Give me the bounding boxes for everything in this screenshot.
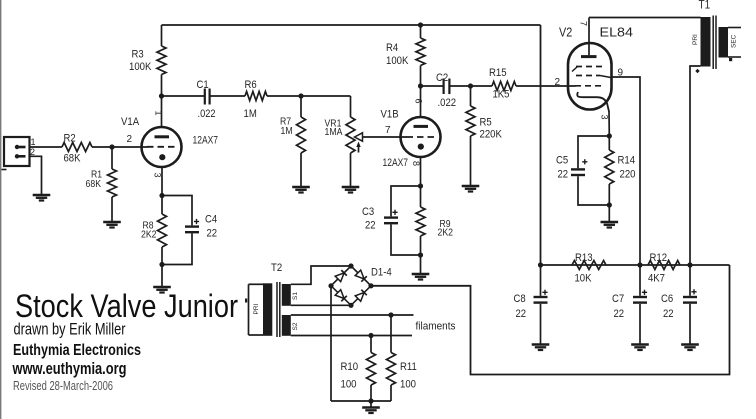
C6 value 22	[663, 308, 674, 320]
node filament bottom R10	[368, 333, 373, 338]
resistor R1	[108, 147, 117, 222]
T2 S2 label	[292, 322, 299, 330]
C8 label	[514, 293, 526, 305]
node top rail R4	[418, 22, 423, 27]
R2 label	[64, 133, 76, 145]
R7 value 1M	[281, 126, 293, 137]
resistor R11	[387, 315, 396, 401]
V1B pin 6 label	[414, 99, 424, 104]
C8 value 22	[516, 308, 527, 320]
resistor R5	[466, 86, 475, 186]
wire jack pin1 to R2	[30, 146, 63, 148]
capacitor C4	[162, 196, 199, 265]
svg-text:22: 22	[558, 169, 569, 181]
VR1 label	[325, 119, 342, 130]
svg-text:S1: S1	[292, 292, 299, 300]
R9 label	[440, 219, 451, 230]
wire filament top	[291, 314, 414, 316]
V2 pin 7 label	[579, 21, 589, 26]
svg-text:7: 7	[385, 125, 391, 136]
svg-text:7: 7	[579, 21, 589, 26]
V1A label	[121, 116, 140, 128]
T1 phase dot	[695, 69, 699, 73]
ground at VR1	[342, 187, 360, 193]
wire B+ filter rail	[541, 264, 730, 266]
input stub mark	[2, 169, 7, 171]
V1A pin 3 label	[153, 173, 163, 178]
svg-text:100K: 100K	[386, 55, 409, 67]
svg-text:drawn by Erik Miller: drawn by Erik Miller	[14, 321, 126, 339]
filaments label	[416, 321, 456, 333]
svg-text:C8: C8	[514, 293, 526, 305]
svg-text:Revised 28-March-2006: Revised 28-March-2006	[13, 378, 113, 393]
V1B label	[381, 109, 399, 121]
R6 label	[245, 79, 257, 91]
node R9 bottom	[418, 252, 423, 257]
R12 value 4K7	[648, 273, 665, 285]
node C6	[687, 262, 692, 267]
T2 label	[271, 262, 282, 274]
capacitor C2	[421, 79, 471, 95]
T1 label	[699, 0, 711, 12]
R4 label	[386, 42, 398, 54]
svg-text:1MA: 1MA	[325, 127, 343, 138]
ground at jack	[33, 195, 51, 201]
wire T2 S1 bottom to bridge	[291, 304, 351, 306]
node C8	[538, 262, 543, 267]
ground at R14	[601, 222, 619, 228]
svg-text:22: 22	[207, 228, 218, 240]
C3 label	[362, 206, 374, 218]
svg-text:R10: R10	[341, 361, 359, 373]
svg-text:22: 22	[516, 308, 527, 320]
image left border line	[0, 0, 2, 419]
R1 label	[91, 170, 102, 181]
resistor R14	[605, 136, 614, 205]
wire bridge DC minus	[330, 286, 332, 401]
svg-text:R14: R14	[618, 155, 636, 167]
node V1A plate junction	[159, 93, 164, 98]
wire R6 to node B	[267, 95, 301, 97]
T2 S1 label	[292, 292, 299, 300]
svg-text:3: 3	[153, 173, 163, 178]
svg-text:1K5: 1K5	[493, 89, 510, 101]
svg-text:12AX7: 12AX7	[193, 135, 219, 147]
node C2 R5 R15	[468, 83, 473, 88]
wire B+ drop	[540, 25, 542, 265]
node filament top R11	[388, 312, 393, 317]
resistor R4	[416, 25, 425, 86]
resistor R6	[245, 92, 267, 101]
svg-text:R5: R5	[480, 117, 492, 129]
svg-text:R6: R6	[245, 79, 257, 91]
ground at PSU	[362, 408, 380, 414]
svg-text:C3: C3	[362, 206, 374, 218]
V1B pin 7 label	[385, 125, 391, 136]
R5 label	[480, 117, 492, 129]
svg-text:R3: R3	[132, 49, 144, 61]
resistor R8	[158, 196, 167, 265]
jack pin 2 label	[30, 147, 35, 157]
ground at R5	[462, 186, 480, 192]
svg-text:PRI: PRI	[692, 34, 699, 45]
V2 type EL84	[600, 26, 634, 40]
R13 value 10K	[575, 273, 593, 285]
svg-text:100K: 100K	[129, 61, 152, 73]
capacitor C3	[384, 186, 421, 255]
svg-text:C7: C7	[612, 293, 624, 305]
resistor R10	[367, 336, 376, 402]
C4 label	[205, 214, 217, 226]
capacitor C1	[162, 89, 246, 105]
resistor R13	[572, 261, 606, 270]
wire node B to VR1	[301, 95, 351, 97]
V2 pin 3 label	[600, 115, 610, 120]
wire jack pin2 to ground	[30, 156, 42, 195]
svg-text:R4: R4	[386, 42, 398, 54]
R15 label	[489, 67, 507, 79]
capacitor C7	[633, 265, 647, 345]
jack pin 1 label	[31, 137, 36, 147]
resistor R3	[157, 25, 166, 96]
svg-text:.022: .022	[438, 97, 457, 109]
resistor R12	[648, 261, 680, 270]
svg-text:2: 2	[555, 77, 561, 88]
svg-text:T2: T2	[271, 262, 282, 274]
T1 PRI label	[692, 34, 699, 45]
T2 PRI label	[253, 303, 260, 314]
svg-text:R13: R13	[575, 252, 593, 264]
company text	[13, 342, 141, 359]
R11 label	[400, 361, 417, 373]
wire filament bottom	[291, 335, 412, 337]
svg-text:filaments: filaments	[416, 321, 456, 333]
triode V1B	[401, 86, 441, 186]
website text	[12, 360, 127, 378]
wire R8 to ground	[161, 265, 163, 288]
R6 value 1M	[244, 108, 257, 120]
svg-text:22: 22	[365, 220, 376, 232]
wire top rail	[162, 24, 541, 26]
svg-text:C5: C5	[556, 155, 568, 167]
wire R14 to ground	[608, 205, 610, 222]
node V1B plate junction	[418, 83, 423, 88]
R12 label	[650, 252, 668, 264]
svg-text:12AX7: 12AX7	[383, 157, 409, 169]
svg-text:R2: R2	[64, 133, 76, 145]
svg-text:www.euthymia.org: www.euthymia.org	[12, 360, 127, 378]
resistor R15	[471, 82, 576, 91]
wire V2 cathode down	[608, 111, 610, 136]
svg-text:S2: S2	[292, 322, 299, 330]
capacitor C6	[683, 265, 697, 345]
R1 value 68K	[86, 179, 102, 190]
svg-text:10K: 10K	[575, 273, 593, 285]
node V1B cathode	[418, 183, 423, 188]
wire V2 screen to node C7	[612, 77, 641, 265]
svg-text:SEC: SEC	[731, 34, 738, 48]
svg-text:6: 6	[414, 99, 424, 104]
svg-text:2: 2	[30, 147, 35, 157]
pentode V2	[568, 18, 612, 112]
svg-text:R11: R11	[400, 361, 417, 373]
wire T1 primary to B+	[690, 66, 701, 265]
C1 value .022	[198, 108, 216, 120]
node heater ground	[368, 398, 373, 403]
svg-text:2K2: 2K2	[141, 230, 157, 241]
svg-text:68K: 68K	[86, 179, 102, 190]
svg-text:PRI: PRI	[253, 303, 260, 314]
R4 value 100K	[386, 55, 409, 67]
svg-text:Euthymia Electronics: Euthymia Electronics	[13, 342, 141, 359]
svg-text:V1B: V1B	[381, 109, 399, 121]
svg-text:.022: .022	[198, 108, 216, 120]
R11 value 100	[400, 379, 416, 391]
wire R2 to node A	[92, 146, 112, 148]
bridge rectifier D1-4	[328, 263, 373, 308]
ground at R9	[412, 274, 430, 280]
triode V1A	[142, 96, 182, 196]
svg-text:8: 8	[411, 161, 421, 166]
V1A grid pin 2 label	[127, 134, 133, 145]
svg-text:T1: T1	[699, 0, 711, 12]
VR1 value 1MA	[325, 127, 343, 138]
resistor R9	[416, 186, 425, 255]
R14 label	[618, 155, 636, 167]
ground at R7	[292, 187, 310, 193]
C3 value 22	[365, 220, 376, 232]
wire heater ground bus	[331, 400, 391, 402]
transformer T2	[245, 282, 291, 337]
R13 label	[575, 252, 593, 264]
svg-text:3: 3	[600, 115, 610, 120]
svg-text:2K2: 2K2	[438, 228, 454, 239]
capacitor C5	[571, 136, 609, 205]
input jack J1	[4, 137, 30, 166]
node A junction	[109, 144, 114, 149]
node B junction	[298, 93, 303, 98]
svg-text:1M: 1M	[281, 126, 293, 137]
capacitor C8	[534, 265, 548, 345]
resistor R2	[62, 143, 92, 152]
svg-text:1: 1	[154, 111, 164, 116]
T1 SEC label	[731, 34, 738, 48]
V1B pin 8 label	[411, 161, 421, 166]
resistor R7	[297, 96, 306, 187]
svg-text:22: 22	[663, 308, 674, 320]
ground at C6	[681, 345, 699, 351]
C7 value 22	[614, 308, 625, 320]
svg-text:Stock Valve Junior: Stock Valve Junior	[15, 288, 238, 324]
C2 label	[436, 72, 448, 84]
C1 label	[197, 79, 209, 91]
svg-text:220K: 220K	[480, 129, 503, 141]
ground at R8	[153, 287, 171, 293]
svg-text:R12: R12	[650, 252, 668, 264]
node R8 bottom	[159, 262, 164, 267]
svg-text:V2: V2	[559, 26, 572, 40]
R10 label	[341, 361, 359, 373]
V2 label	[559, 26, 572, 40]
R3 label	[132, 49, 144, 61]
svg-text:D1-4: D1-4	[371, 267, 392, 279]
revised text	[13, 378, 113, 393]
wire to PSU ground	[370, 401, 372, 408]
svg-text:100: 100	[341, 379, 357, 391]
C5 value 22	[558, 169, 569, 181]
transformer T1	[701, 16, 742, 70]
wire R9 to ground	[420, 255, 422, 274]
V2 pin 2 label	[555, 77, 561, 88]
D1-4 label	[371, 267, 392, 279]
svg-text:22: 22	[614, 308, 625, 320]
node V2 cathode	[607, 133, 612, 138]
V2 pin 9 label	[618, 68, 624, 79]
C4 value 22	[207, 228, 218, 240]
svg-text:1: 1	[31, 137, 36, 147]
V1A type 12AX7	[193, 135, 219, 147]
svg-text:100: 100	[400, 379, 416, 391]
R8 label	[143, 221, 154, 232]
svg-text:1M: 1M	[244, 108, 257, 120]
V1B type 12AX7	[383, 157, 409, 169]
V1A pin 1 label	[154, 111, 164, 116]
R2 value 68K	[64, 153, 82, 165]
R15 value 1K5	[493, 89, 510, 101]
wire T2 S1 top to bridge	[291, 266, 351, 284]
R3 value 100K	[129, 61, 152, 73]
svg-text:2: 2	[127, 134, 133, 145]
svg-text:V1A: V1A	[121, 116, 140, 128]
R10 value 100	[341, 379, 357, 391]
ground at R1	[103, 222, 121, 228]
wire V2 plate to T1	[589, 17, 701, 19]
node R14 bottom	[607, 202, 612, 207]
svg-text:C6: C6	[661, 293, 673, 305]
svg-text:4K7: 4K7	[648, 273, 665, 285]
svg-text:C1: C1	[197, 79, 209, 91]
wire node A to V1A grid	[112, 146, 148, 148]
svg-text:220: 220	[620, 169, 636, 181]
svg-text:EL84: EL84	[600, 26, 634, 40]
drawn by text	[14, 321, 126, 339]
C6 label	[661, 293, 673, 305]
R9 value 2K2	[438, 228, 454, 239]
R7 label	[280, 117, 291, 128]
potentiometer VR1	[346, 96, 407, 187]
title text	[15, 288, 238, 324]
svg-text:R15: R15	[489, 67, 507, 79]
C2 value .022	[438, 97, 457, 109]
R14 value 220	[620, 169, 636, 181]
svg-text:C4: C4	[205, 214, 217, 226]
wire B+ loop	[371, 265, 730, 375]
node V1A cathode	[159, 193, 164, 198]
R8 value 2K2	[141, 230, 157, 241]
ground at C8	[532, 345, 550, 351]
R5 value 220K	[480, 129, 503, 141]
svg-text:68K: 68K	[64, 153, 82, 165]
C7 label	[612, 293, 624, 305]
node C7	[637, 262, 642, 267]
svg-text:C2: C2	[436, 72, 448, 84]
C5 label	[556, 155, 568, 167]
ground at C7	[631, 345, 649, 351]
